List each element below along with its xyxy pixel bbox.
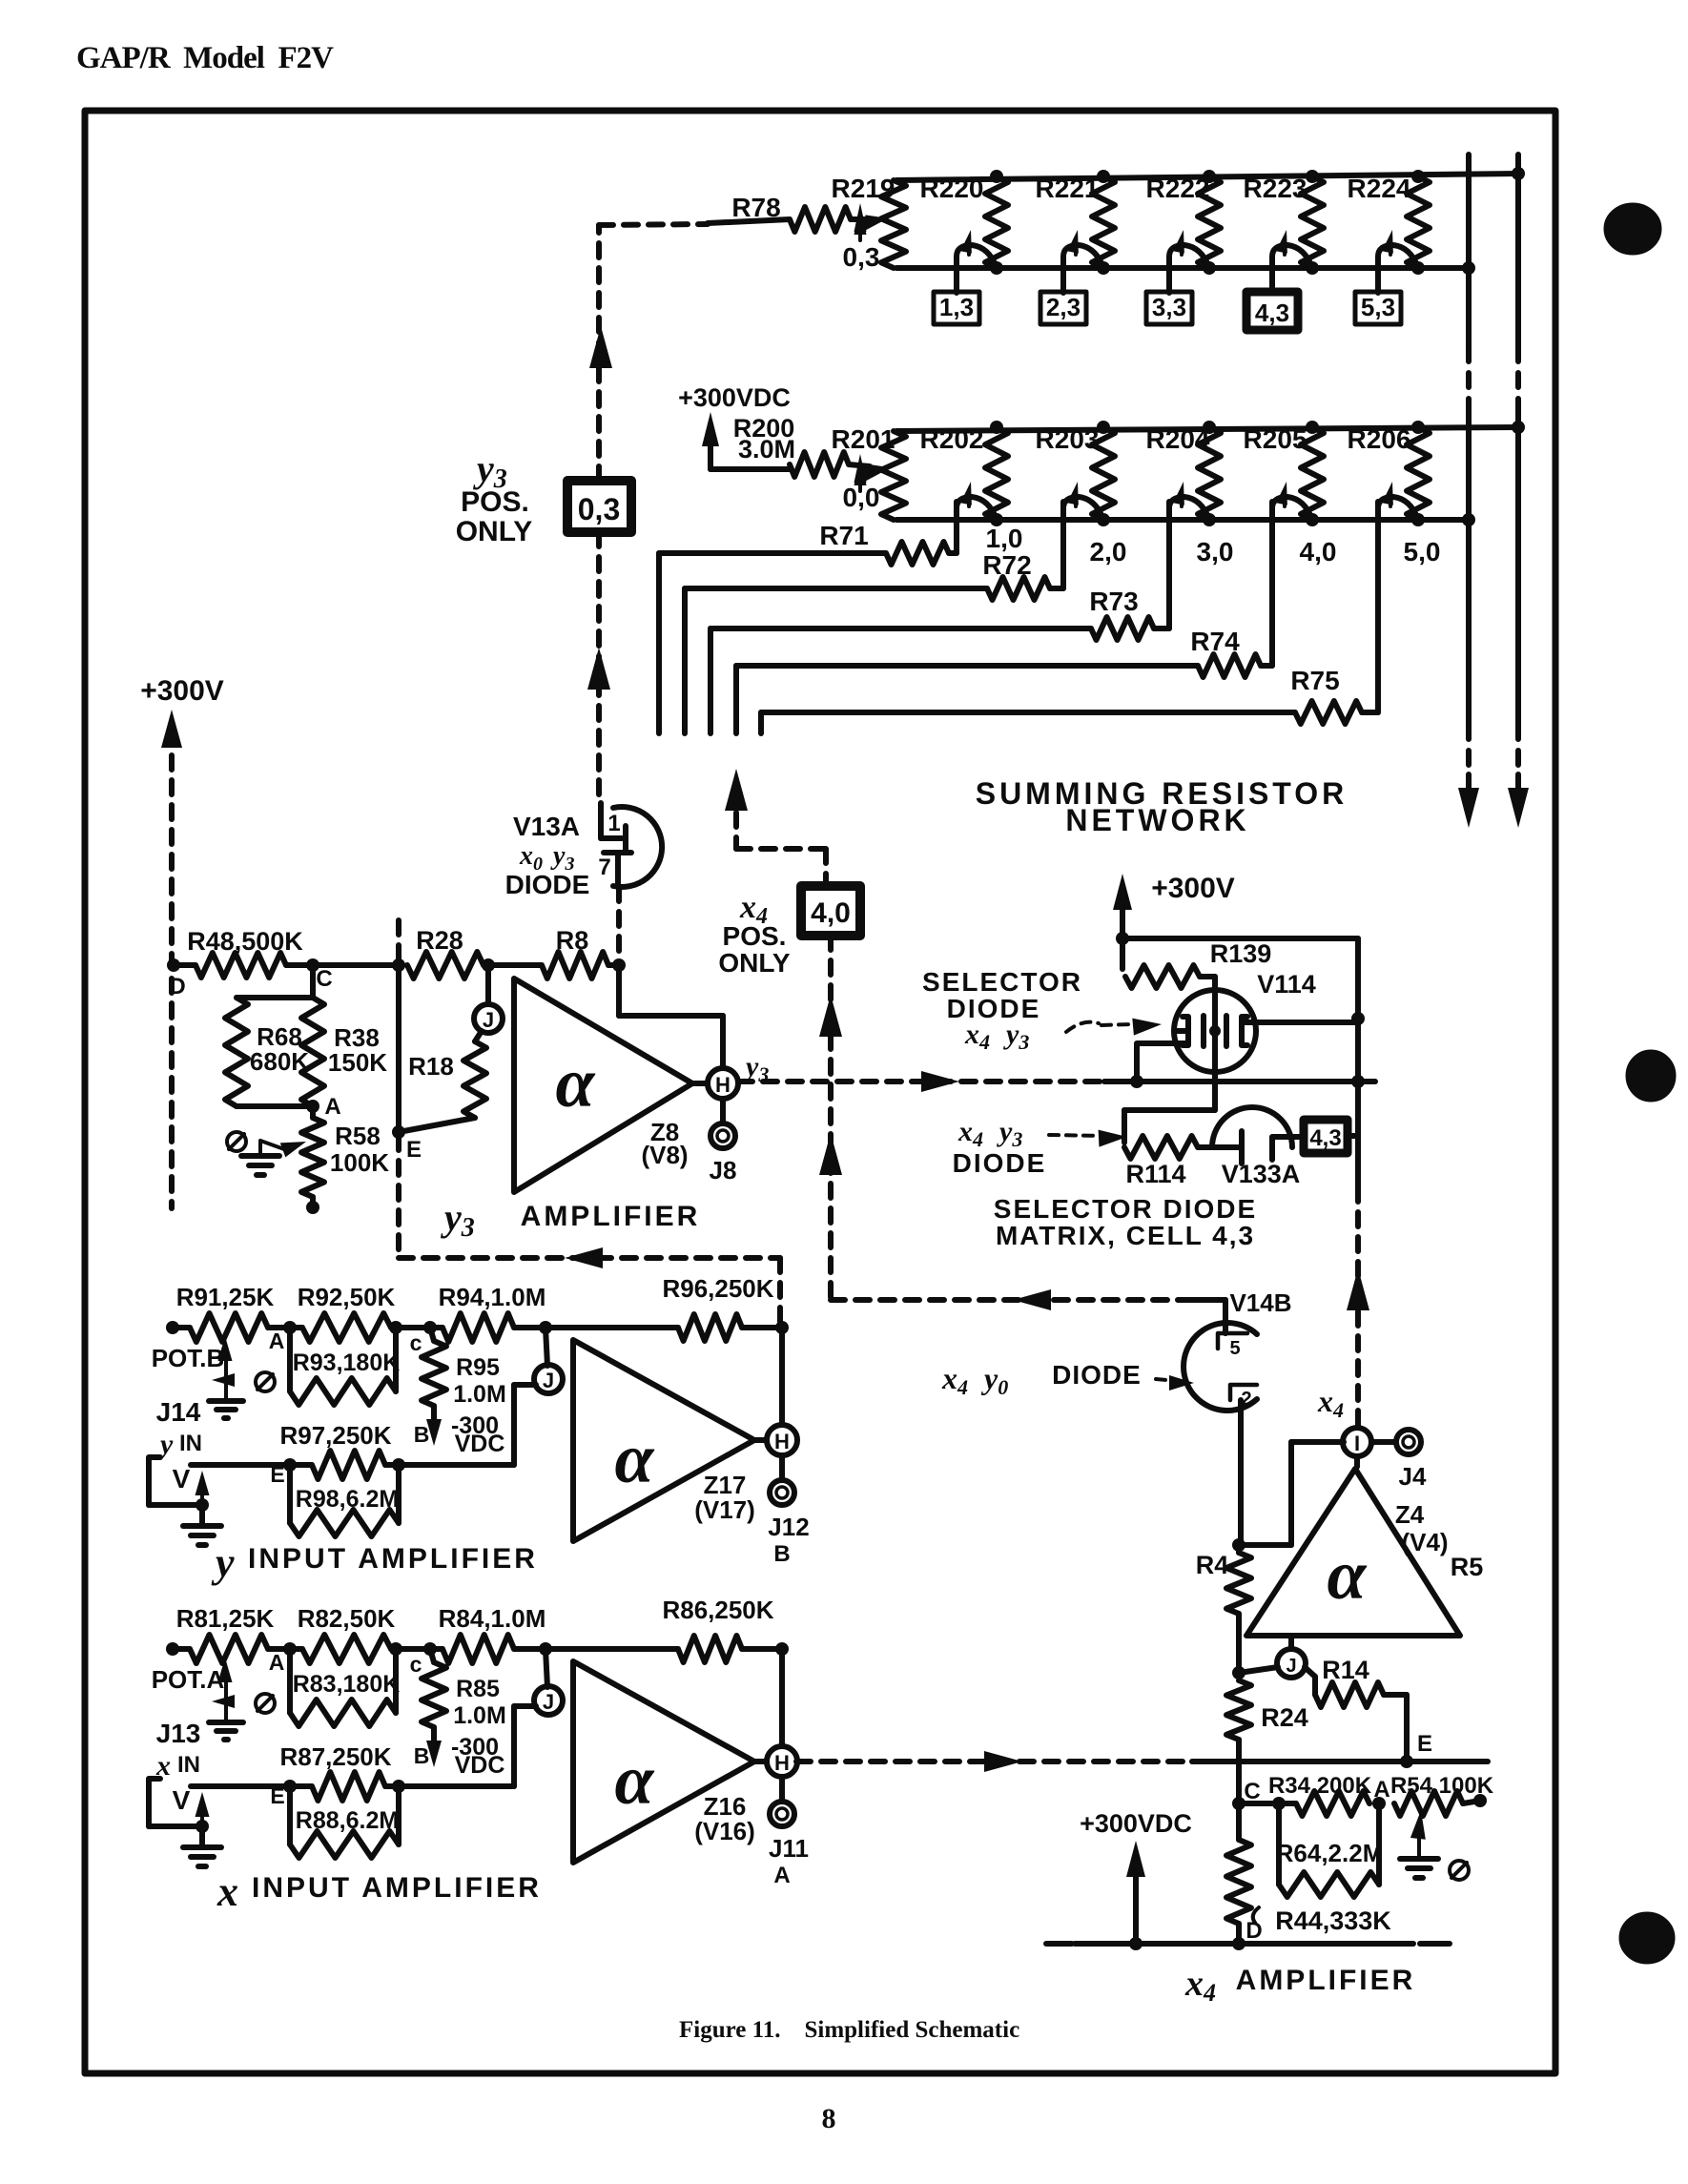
svg-text:A: A	[324, 1094, 340, 1120]
svg-text:+300VDC: +300VDC	[678, 383, 791, 412]
svg-text:D: D	[169, 974, 185, 999]
svg-text:4,0: 4,0	[1300, 537, 1337, 567]
svg-text:c: c	[410, 1652, 422, 1677]
svg-text:DIODE: DIODE	[947, 994, 1041, 1023]
svg-text:R72: R72	[982, 550, 1031, 580]
svg-text:R78: R78	[731, 193, 780, 222]
svg-text:R24: R24	[1261, 1703, 1308, 1732]
svg-text:R114: R114	[1125, 1160, 1185, 1188]
svg-text:R224: R224	[1348, 174, 1411, 203]
svg-text:J: J	[483, 1008, 494, 1032]
svg-text:3,3: 3,3	[1152, 293, 1186, 321]
svg-text:y: y	[157, 1429, 174, 1460]
svg-text:R221: R221	[1036, 174, 1100, 203]
svg-text:C: C	[316, 966, 332, 992]
svg-text:J: J	[1286, 1656, 1296, 1677]
svg-text:R4: R4	[1196, 1551, 1229, 1579]
svg-text:R14: R14	[1322, 1656, 1369, 1684]
svg-text:NETWORK: NETWORK	[1065, 803, 1249, 837]
svg-text:+300V: +300V	[1151, 873, 1235, 904]
svg-text:R18: R18	[408, 1052, 454, 1081]
svg-text:R84,1.0M: R84,1.0M	[439, 1604, 546, 1633]
svg-text:R139: R139	[1210, 939, 1272, 968]
svg-text:A: A	[269, 1650, 285, 1675]
svg-text:+300V: +300V	[140, 675, 224, 707]
svg-text:H: H	[774, 1430, 790, 1453]
svg-text:J: J	[543, 1690, 554, 1714]
svg-text:8: 8	[822, 2103, 836, 2134]
svg-text:R95: R95	[456, 1354, 500, 1381]
svg-text:V: V	[173, 1785, 191, 1815]
svg-text:A: A	[269, 1329, 285, 1353]
svg-text:1.0M: 1.0M	[453, 1381, 506, 1408]
svg-text:R28: R28	[416, 926, 463, 955]
svg-text:E: E	[406, 1137, 422, 1163]
svg-text:J: J	[543, 1369, 554, 1392]
svg-text:680K: 680K	[250, 1047, 309, 1076]
svg-text:AMPLIFIER: AMPLIFIER	[521, 1201, 701, 1232]
svg-text:2,3: 2,3	[1046, 293, 1081, 321]
svg-text:V114: V114	[1257, 970, 1316, 999]
svg-text:D: D	[1245, 1918, 1262, 1944]
svg-text:POS.: POS.	[723, 921, 787, 951]
svg-text:ONLY: ONLY	[456, 516, 533, 547]
svg-text:R88,6.2M: R88,6.2M	[296, 1807, 399, 1834]
svg-text:4,3: 4,3	[1255, 299, 1289, 327]
svg-text:V: V	[173, 1464, 191, 1494]
svg-text:R93,180K: R93,180K	[293, 1350, 401, 1376]
svg-text:J12: J12	[768, 1513, 809, 1541]
svg-text:R91,25K: R91,25K	[176, 1283, 275, 1311]
svg-text:C: C	[1244, 1779, 1260, 1804]
svg-text:J4: J4	[1399, 1462, 1427, 1491]
svg-text:R83,180K: R83,180K	[293, 1671, 401, 1698]
svg-text:INPUT AMPLIFIER: INPUT AMPLIFIER	[248, 1543, 538, 1575]
svg-text:J14: J14	[156, 1397, 201, 1427]
svg-text:Z4: Z4	[1395, 1500, 1425, 1529]
svg-text:POT.A: POT.A	[152, 1665, 225, 1694]
svg-text:MATRIX, CELL 4,3: MATRIX, CELL 4,3	[996, 1221, 1255, 1250]
svg-text:R48,500K: R48,500K	[187, 927, 303, 956]
svg-text:R92,50K: R92,50K	[298, 1283, 396, 1311]
svg-text:B: B	[414, 1422, 430, 1447]
svg-text:R64,2.2M: R64,2.2M	[1276, 1839, 1384, 1867]
svg-text:E: E	[1417, 1731, 1432, 1757]
svg-text:R202: R202	[920, 424, 984, 454]
svg-text:3,0: 3,0	[1197, 537, 1234, 567]
svg-text:SELECTOR DIODE: SELECTOR DIODE	[994, 1194, 1257, 1224]
svg-text:R73: R73	[1089, 587, 1138, 616]
svg-text:α: α	[615, 1420, 655, 1498]
svg-text:R223: R223	[1244, 174, 1307, 203]
svg-text:1: 1	[607, 811, 620, 836]
svg-text:R5: R5	[1451, 1553, 1484, 1581]
svg-text:ONLY: ONLY	[718, 948, 791, 978]
svg-text:DIODE: DIODE	[505, 870, 590, 899]
svg-text:R44,333K: R44,333K	[1275, 1906, 1391, 1935]
svg-text:R58: R58	[335, 1122, 381, 1150]
svg-text:R81,25K: R81,25K	[176, 1604, 275, 1633]
svg-text:c: c	[410, 1330, 422, 1355]
svg-text:R82,50K: R82,50K	[298, 1604, 396, 1633]
svg-text:R203: R203	[1036, 424, 1100, 454]
svg-text:x: x	[216, 1868, 238, 1915]
svg-text:J8: J8	[710, 1156, 737, 1185]
svg-text:AMPLIFIER: AMPLIFIER	[1236, 1965, 1416, 1996]
svg-text:V14B: V14B	[1229, 1288, 1291, 1317]
svg-text:R98,6.2M: R98,6.2M	[296, 1486, 399, 1513]
svg-text:α: α	[556, 1044, 596, 1123]
svg-text:R71: R71	[819, 521, 868, 550]
svg-text:R87,250K: R87,250K	[279, 1742, 391, 1771]
svg-text:α: α	[1328, 1536, 1368, 1615]
svg-text:A: A	[773, 1863, 790, 1888]
svg-text:R220: R220	[920, 174, 984, 203]
svg-text:R85: R85	[456, 1676, 500, 1702]
svg-text:I: I	[1354, 1432, 1360, 1455]
svg-text:3.0M: 3.0M	[738, 435, 795, 464]
svg-text:SELECTOR: SELECTOR	[922, 967, 1082, 997]
svg-text:R34,200K: R34,200K	[1268, 1773, 1372, 1799]
svg-text:H: H	[715, 1073, 731, 1097]
svg-text:IN: IN	[177, 1752, 200, 1778]
svg-text:+300VDC: +300VDC	[1080, 1809, 1192, 1838]
svg-text:(V16): (V16)	[694, 1817, 755, 1845]
svg-text:A: A	[1373, 1777, 1390, 1803]
svg-text:DIODE: DIODE	[1052, 1360, 1142, 1390]
svg-text:VDC: VDC	[455, 1431, 505, 1457]
svg-text:J11: J11	[769, 1834, 809, 1863]
svg-text:(V17): (V17)	[694, 1495, 755, 1524]
svg-text:POS.: POS.	[461, 486, 529, 518]
svg-text:R205: R205	[1244, 424, 1307, 454]
svg-text:α: α	[615, 1741, 655, 1820]
svg-text:0,3: 0,3	[578, 492, 620, 526]
svg-text:Figure 11. Simplified Schem: Figure 11. Simplified Schematic	[679, 2017, 1019, 2043]
svg-text:100K: 100K	[330, 1148, 389, 1177]
svg-text:GAP/R Model F2V: GAP/R Model F2V	[76, 41, 334, 75]
svg-text:R219: R219	[832, 174, 895, 203]
svg-text:R204: R204	[1146, 424, 1210, 454]
svg-text:R201: R201	[832, 424, 895, 454]
svg-text:5: 5	[1229, 1338, 1240, 1359]
svg-text:1,0: 1,0	[986, 524, 1023, 553]
svg-text:E: E	[270, 1783, 284, 1808]
svg-text:7: 7	[598, 855, 610, 880]
svg-text:B: B	[773, 1541, 790, 1567]
svg-text:INPUT AMPLIFIER: INPUT AMPLIFIER	[252, 1872, 542, 1904]
svg-text:0,3: 0,3	[843, 242, 880, 272]
svg-text:H: H	[774, 1751, 790, 1775]
svg-text:R86,250K: R86,250K	[662, 1596, 773, 1624]
svg-text:(V4): (V4)	[1401, 1528, 1448, 1556]
svg-text:J13: J13	[156, 1719, 201, 1748]
svg-text:POT.B: POT.B	[152, 1344, 225, 1372]
svg-text:x: x	[155, 1750, 171, 1782]
svg-text:R75: R75	[1290, 666, 1339, 695]
svg-text:4,0: 4,0	[811, 897, 851, 929]
svg-text:2,0: 2,0	[1090, 537, 1127, 567]
svg-text:R74: R74	[1190, 627, 1240, 656]
svg-text:4,3: 4,3	[1309, 1125, 1341, 1151]
svg-text:VDC: VDC	[455, 1752, 505, 1779]
svg-text:R206: R206	[1348, 424, 1411, 454]
svg-text:B: B	[414, 1743, 430, 1768]
svg-text:V133A: V133A	[1222, 1160, 1301, 1188]
svg-text:5,3: 5,3	[1361, 293, 1395, 321]
svg-text:5,0: 5,0	[1404, 537, 1441, 567]
svg-text:R54,100K: R54,100K	[1390, 1773, 1494, 1799]
svg-text:150K: 150K	[328, 1048, 387, 1077]
svg-text:1.0M: 1.0M	[453, 1702, 506, 1729]
svg-text:E: E	[270, 1462, 284, 1487]
svg-text:R97,250K: R97,250K	[279, 1421, 391, 1450]
svg-text:R96,250K: R96,250K	[662, 1274, 773, 1303]
svg-text:(V8): (V8)	[641, 1141, 688, 1169]
svg-text:V13A: V13A	[513, 812, 580, 841]
svg-text:R94,1.0M: R94,1.0M	[439, 1283, 546, 1311]
svg-text:DIODE: DIODE	[953, 1148, 1047, 1178]
svg-text:R222: R222	[1146, 174, 1210, 203]
svg-text:1,3: 1,3	[939, 293, 974, 321]
svg-text:IN: IN	[179, 1431, 202, 1456]
